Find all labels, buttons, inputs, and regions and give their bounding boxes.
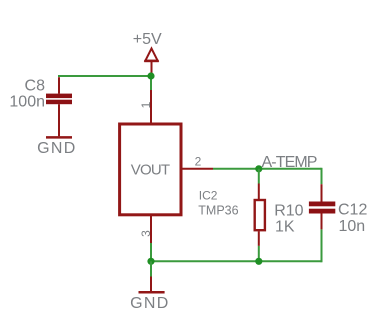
junction dot at +5V <box>147 72 154 79</box>
svg-text:GND: GND <box>130 295 169 312</box>
svg-text:100n: 100n <box>9 94 45 111</box>
svg-text:10n: 10n <box>339 218 366 235</box>
svg-text:C12: C12 <box>338 202 367 219</box>
pin 2 of IC2 <box>183 168 214 170</box>
junction dot A-TEMP <box>255 165 262 172</box>
ground symbol bottom <box>139 291 165 294</box>
junction dot bottom R10 <box>255 258 262 265</box>
svg-text:3: 3 <box>139 230 153 237</box>
wire +5V to C8 <box>58 75 151 77</box>
wire junction to GND <box>150 261 152 276</box>
resistor R10 <box>255 184 265 246</box>
op-amp body IC2 (TMP36 box) <box>120 124 181 215</box>
svg-text:1K: 1K <box>275 218 295 235</box>
wire A-TEMP junction down to R10 <box>258 169 260 184</box>
pin 3 of IC2 <box>150 214 152 243</box>
svg-text:GND: GND <box>37 140 76 157</box>
svg-text:R10: R10 <box>274 203 303 220</box>
wire pin3 to bottom rail <box>150 243 152 261</box>
supply +5V label <box>133 31 162 48</box>
supply +5V symbol <box>144 49 159 74</box>
ground symbol at C8 <box>46 136 72 139</box>
ground lead bottom <box>150 277 152 292</box>
svg-text:1: 1 <box>139 101 153 108</box>
svg-text:TMP36: TMP36 <box>198 203 238 217</box>
svg-text:VOUT: VOUT <box>131 161 170 178</box>
capacitor C8 <box>46 77 72 136</box>
pin 1 of IC2 <box>150 90 152 123</box>
svg-text:+5V: +5V <box>133 31 162 48</box>
bottom rail wire <box>151 260 322 262</box>
wire A-TEMP corner down to C12 <box>321 168 323 184</box>
wire stub below +5V junction <box>150 76 152 91</box>
wire C12 down to bottom rail <box>321 229 323 262</box>
wire pin2 to A-TEMP <box>213 168 322 170</box>
capacitor C12 <box>309 184 335 229</box>
junction dot bottom pin3 <box>147 258 154 265</box>
svg-text:2: 2 <box>195 154 202 168</box>
wire R10 to bottom rail <box>258 246 260 261</box>
svg-text:IC2: IC2 <box>199 189 218 203</box>
svg-text:A-TEMP: A-TEMP <box>262 154 317 171</box>
svg-text:C8: C8 <box>25 78 46 95</box>
